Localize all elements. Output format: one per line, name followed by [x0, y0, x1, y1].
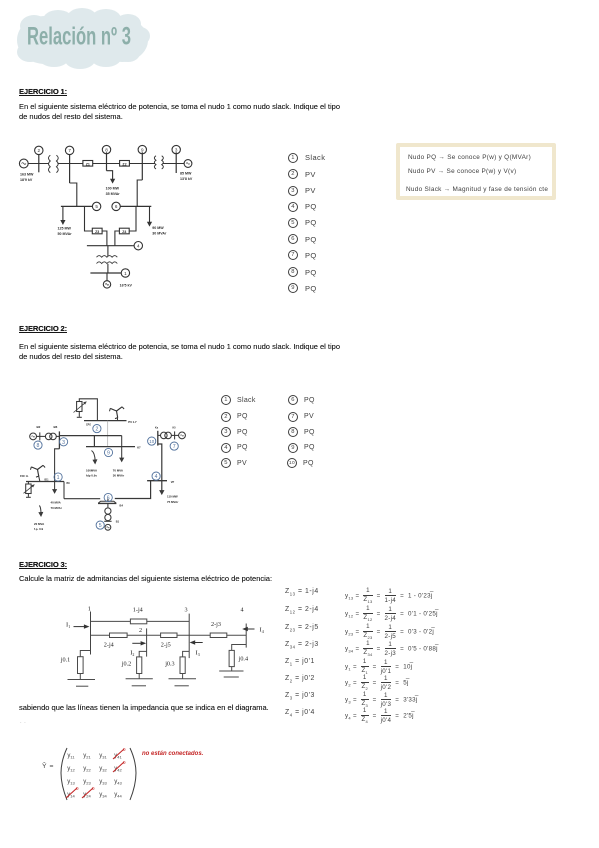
svg-text:Z2: Z2: [122, 162, 126, 166]
svg-text:I1: I1: [66, 622, 70, 630]
svg-text:B2: B2: [37, 425, 41, 429]
svg-text:I2: I2: [130, 650, 134, 658]
svg-text:4: 4: [155, 474, 158, 480]
svg-text:8: 8: [105, 147, 108, 152]
svg-text:j0.4: j0.4: [238, 656, 248, 663]
svg-text:2-j5: 2-j5: [161, 642, 171, 649]
svg-text:4: 4: [241, 607, 244, 614]
svg-text:8: 8: [37, 443, 40, 449]
svg-text:y34: y34: [99, 792, 107, 799]
svg-text:Ka: Ka: [155, 426, 159, 429]
svg-text:y31: y31: [99, 753, 107, 760]
svg-text:16'5 kV: 16'5 kV: [120, 284, 133, 288]
svg-text:7: 7: [68, 148, 71, 153]
svg-text:100 MW: 100 MW: [106, 187, 120, 191]
svg-text:y12: y12: [67, 766, 75, 773]
svg-text:j0.1: j0.1: [60, 657, 70, 664]
svg-text:B6: B6: [54, 425, 58, 429]
svg-text:1-j4: 1-j4: [133, 607, 143, 614]
svg-text:70 MVAr: 70 MVAr: [51, 506, 63, 510]
svg-text:P.0C 1L: P.0C 1L: [20, 475, 29, 478]
svg-text:B8: B8: [67, 482, 71, 485]
svg-text:y33: y33: [99, 779, 107, 786]
svg-text:K7: K7: [137, 446, 141, 450]
svg-text:Z3: Z3: [95, 230, 99, 234]
svg-text:CPG: CPG: [86, 424, 91, 426]
svg-text:0: 0: [123, 760, 126, 765]
svg-text:B4: B4: [120, 503, 124, 507]
svg-text:Z4: Z4: [122, 230, 126, 234]
svg-text:no están conectados.: no están conectados.: [142, 751, 204, 757]
svg-text:90 MW: 90 MW: [152, 226, 164, 230]
svg-text:1: 1: [57, 475, 60, 481]
svg-text:I3: I3: [196, 650, 200, 658]
svg-text:y23: y23: [83, 779, 91, 786]
svg-text:B1: B1: [116, 520, 120, 524]
svg-text:110 MW: 110 MW: [167, 495, 178, 499]
svg-text:2: 2: [139, 627, 142, 634]
svg-text:163 MW: 163 MW: [20, 173, 34, 177]
svg-text:j0.3: j0.3: [164, 661, 174, 668]
svg-text:0: 0: [76, 786, 79, 791]
svg-text:f.p. 0.9: f.p. 0.9: [34, 527, 44, 531]
svg-text:3: 3: [185, 607, 188, 614]
svg-text:50 MVAr: 50 MVAr: [58, 232, 73, 236]
svg-text:5: 5: [99, 523, 102, 529]
svg-text:3: 3: [175, 147, 178, 152]
svg-text:y43: y43: [114, 779, 122, 786]
svg-text:35 MVAr: 35 MVAr: [106, 192, 121, 196]
svg-text:y21: y21: [83, 753, 91, 760]
svg-text:Relación nº 3: Relación nº 3: [27, 23, 131, 51]
svg-text:1: 1: [88, 606, 91, 613]
svg-text:100MVA: 100MVA: [86, 469, 98, 473]
svg-text:10: 10: [149, 439, 154, 444]
svg-text:VP: VP: [171, 481, 175, 484]
svg-text:y11: y11: [67, 753, 75, 760]
svg-text:j0.2: j0.2: [121, 661, 131, 668]
svg-text:4: 4: [137, 244, 140, 249]
svg-text:125 MW: 125 MW: [58, 227, 72, 231]
svg-text:5: 5: [95, 204, 98, 209]
svg-text:30 MVAr: 30 MVAr: [113, 474, 125, 478]
svg-text:9: 9: [107, 451, 110, 457]
svg-text:2-j3: 2-j3: [211, 621, 221, 628]
svg-text:85 MW: 85 MW: [180, 172, 192, 176]
svg-text:y32: y32: [99, 766, 107, 773]
svg-text:0: 0: [123, 747, 126, 752]
svg-text:70 MVA: 70 MVA: [113, 469, 124, 473]
svg-text:3: 3: [62, 440, 65, 446]
svg-text:30 MVAr: 30 MVAr: [152, 232, 167, 236]
svg-text:40 MVA: 40 MVA: [51, 501, 62, 505]
svg-text:P0 1.7: P0 1.7: [128, 420, 137, 424]
svg-text:0: 0: [92, 786, 95, 791]
svg-text:2: 2: [38, 148, 41, 153]
svg-text:20 MVA: 20 MVA: [34, 522, 45, 526]
svg-text:6: 6: [107, 496, 110, 502]
svg-text:B11: B11: [45, 479, 50, 481]
svg-text:Z1: Z1: [86, 162, 90, 166]
svg-text:y22: y22: [83, 766, 91, 773]
svg-text:6: 6: [115, 204, 118, 209]
svg-text:18'9 kV: 18'9 kV: [20, 178, 33, 182]
svg-text:y44: y44: [114, 792, 122, 799]
svg-text:fdp 0.9s: fdp 0.9s: [86, 474, 97, 478]
svg-text:K5: K5: [173, 426, 177, 429]
svg-text:2: 2: [95, 427, 98, 433]
svg-text:I4: I4: [260, 627, 264, 635]
svg-text:y13: y13: [67, 779, 75, 786]
svg-text:9: 9: [141, 147, 144, 152]
svg-text:1: 1: [124, 271, 127, 276]
svg-text:13'8 kV: 13'8 kV: [180, 177, 193, 181]
svg-text:7: 7: [173, 444, 176, 450]
svg-text:75 MVAr: 75 MVAr: [167, 500, 179, 504]
svg-text:2-j4: 2-j4: [104, 642, 114, 649]
